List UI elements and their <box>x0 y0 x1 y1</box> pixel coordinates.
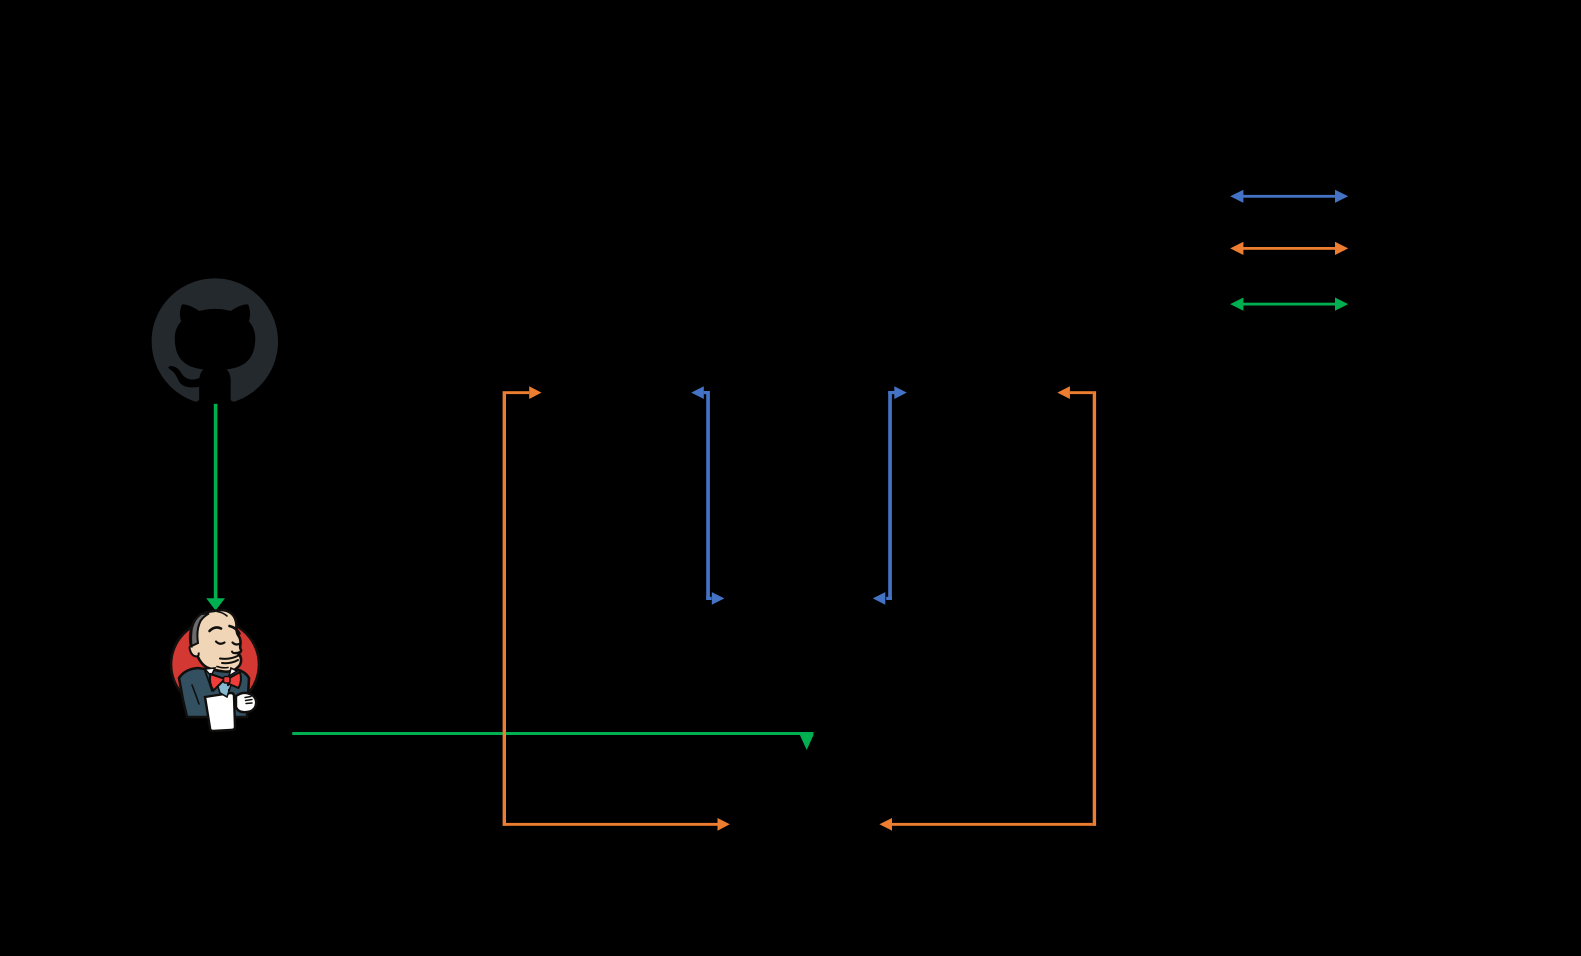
wire orange right elbow connector <box>879 386 1096 831</box>
github logo <box>152 278 278 401</box>
collar <box>205 668 215 676</box>
shirt <box>215 677 233 697</box>
glove knuckle lines <box>245 697 252 704</box>
bow tie <box>210 674 225 691</box>
ear <box>190 646 199 656</box>
right eyebrow <box>230 626 240 634</box>
wire blue double arrow left <box>691 386 724 605</box>
suit <box>179 666 249 717</box>
hair top strand <box>217 612 227 617</box>
legend blue double arrow <box>1230 190 1348 203</box>
glove <box>236 693 256 712</box>
mouth smile <box>220 656 239 659</box>
wire green arrow jenkins to right then down <box>292 732 813 750</box>
hair <box>191 614 209 647</box>
red circle <box>171 621 259 709</box>
left eye closed <box>216 642 225 644</box>
towel <box>205 693 235 731</box>
suit lapel lines <box>205 671 212 691</box>
jenkins mascot <box>171 610 259 731</box>
wire green arrow github to jenkins <box>206 404 225 611</box>
legend orange double arrow <box>1230 242 1348 255</box>
wire blue double arrow right <box>873 386 907 605</box>
nose <box>232 652 238 654</box>
buttons <box>227 684 229 686</box>
head <box>190 610 241 672</box>
left eyebrow <box>210 627 222 631</box>
wire orange left elbow connector <box>503 386 730 831</box>
legend green double arrow <box>1230 298 1348 311</box>
right eye closed <box>233 643 241 645</box>
